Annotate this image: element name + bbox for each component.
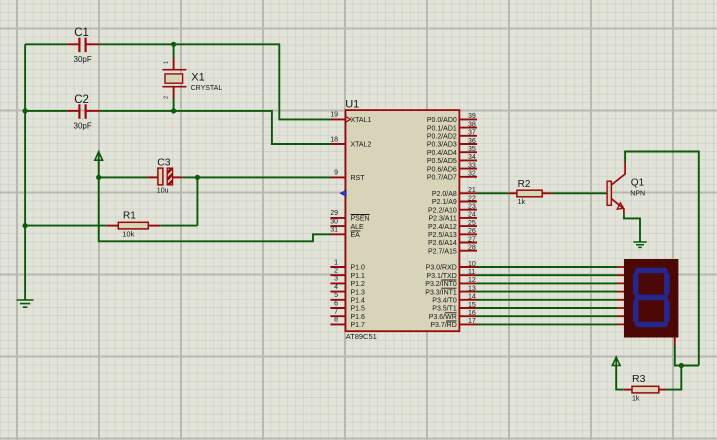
svg-text:31: 31 [330,227,338,234]
junction node RST right [195,175,200,180]
svg-text:P0.2/AD2: P0.2/AD2 [427,134,457,141]
svg-text:R2: R2 [518,179,531,190]
svg-text:P2.3/A11: P2.3/A11 [429,216,457,223]
svg-text:15: 15 [468,302,476,309]
svg-text:P2.6/A14: P2.6/A14 [428,240,457,247]
wire junction down to R3 [666,366,682,390]
svg-text:30pF: 30pF [74,122,92,131]
wire Q1 collector to right rail [625,152,699,366]
power +V symbol (R3) [612,357,620,365]
svg-text:P0.4/AD4: P0.4/AD4 [427,150,457,157]
svg-text:P3.1/TXD: P3.1/TXD [426,273,456,280]
svg-text:9: 9 [334,170,338,177]
svg-text:P2.5/A13: P2.5/A13 [428,232,457,239]
wire R1 to RST branch [160,225,197,227]
svg-text:28: 28 [468,245,476,252]
svg-text:1k: 1k [632,396,640,403]
resistor R1 10k [25,225,106,227]
junction node RST left [96,175,101,180]
svg-text:27: 27 [468,236,476,243]
svg-text:24: 24 [468,212,476,219]
svg-text:P1.3: P1.3 [351,289,366,296]
wire C1 left to rail [25,43,68,45]
wire crystal bottom pin [173,98,175,111]
svg-text:P3.0/RXD: P3.0/RXD [426,265,457,272]
wire display common to rail [675,346,699,366]
svg-text:P0.6/AD6: P0.6/AD6 [427,166,457,173]
svg-text:8: 8 [334,317,338,324]
svg-text:Q1: Q1 [631,178,645,189]
svg-text:35: 35 [468,146,476,153]
svg-text:P3.4/T0: P3.4/T0 [432,298,457,305]
wire Q1 emitter to ground [624,215,640,242]
wire RST node down to R1 [196,177,198,225]
svg-text:X1: X1 [191,72,204,84]
svg-text:P3.5/T1: P3.5/T1 [432,306,457,313]
svg-text:32: 32 [468,171,476,178]
svg-text:10: 10 [468,261,476,268]
svg-text:P3.2/INT0: P3.2/INT0 [425,281,457,288]
svg-text:37: 37 [468,130,476,137]
blue node marker [341,190,347,196]
svg-text:P1.5: P1.5 [351,306,366,313]
svg-text:P1.6: P1.6 [351,314,366,321]
svg-text:P2.1/A9: P2.1/A9 [432,199,457,206]
junction node common [679,363,684,368]
svg-text:23: 23 [468,204,476,211]
svg-text:10u: 10u [157,188,169,195]
svg-text:P3.3/INT1: P3.3/INT1 [425,289,457,296]
svg-text:P2.2/A10: P2.2/A10 [428,207,457,214]
svg-text:P1.7: P1.7 [351,322,366,329]
svg-text:PSEN: PSEN [351,216,370,223]
svg-text:16: 16 [468,310,476,317]
svg-text:P2.4/A12: P2.4/A12 [428,224,457,231]
U1 overlines (active-low pins) [351,215,457,322]
display common pin [674,338,676,346]
capacitor C2 30pF [68,110,79,112]
svg-text:RST: RST [351,175,366,182]
svg-text:18: 18 [330,136,338,143]
svg-text:P1.0: P1.0 [351,265,366,272]
svg-text:P2.7/A15: P2.7/A15 [428,248,457,255]
wire C2 left to rail [25,110,68,112]
svg-text:7: 7 [334,309,338,316]
svg-text:EA: EA [351,232,361,239]
capacitor C1 30pF [68,43,79,45]
svg-text:P0.5/AD5: P0.5/AD5 [427,158,457,165]
wire U1 P2.0 to R2 [477,192,509,194]
wire +V to U1 EA pin [99,177,331,241]
svg-text:C1: C1 [74,27,89,39]
svg-text:P2.0/A8: P2.0/A8 [432,191,457,198]
svg-text:38: 38 [468,121,476,128]
svg-text:25: 25 [468,220,476,227]
wire R2 to Q1 base [551,192,607,194]
svg-text:5: 5 [334,292,338,299]
transistor Q1 NPN [607,181,611,205]
svg-text:2: 2 [164,96,170,99]
svg-text:ALE: ALE [351,224,365,231]
resistor R3 1k [659,389,666,391]
svg-text:XTAL1: XTAL1 [351,117,372,124]
wire R3 to power [616,365,624,390]
svg-text:2: 2 [334,268,338,275]
7-segment display [617,267,624,324]
svg-text:P1.2: P1.2 [351,281,366,288]
svg-text:AT89C51: AT89C51 [346,332,377,341]
svg-text:17: 17 [468,318,476,325]
svg-text:19: 19 [330,112,338,119]
svg-text:13: 13 [468,285,476,292]
svg-text:29: 29 [330,210,338,217]
svg-text:NPN: NPN [630,190,645,197]
svg-text:22: 22 [468,195,476,202]
svg-text:3: 3 [334,276,338,283]
resistor R2 1k [509,192,517,194]
capacitor C3 10u [99,176,148,178]
junction node crystal top [171,42,176,47]
svg-text:21: 21 [468,187,476,194]
svg-text:30: 30 [330,218,338,225]
svg-text:12: 12 [468,277,476,284]
junction node crystal bottom [171,108,176,113]
svg-text:P3.6/WR: P3.6/WR [429,314,457,321]
svg-text:26: 26 [468,228,476,235]
IC U1 AT89C51 body [346,110,460,331]
svg-text:P0.0/AD0: P0.0/AD0 [427,117,457,124]
wire left rail [24,44,26,299]
svg-text:R3: R3 [632,373,646,385]
wire C3 to U1 RST pin [182,176,331,178]
wire power to RST node [98,158,100,177]
svg-text:33: 33 [468,162,476,169]
svg-text:P0.3/AD3: P0.3/AD3 [427,142,457,149]
svg-text:R1: R1 [123,211,136,222]
svg-text:P1.1: P1.1 [351,273,366,280]
svg-text:39: 39 [468,113,476,120]
svg-text:P0.7/AD7: P0.7/AD7 [427,175,457,182]
svg-text:C3: C3 [157,156,171,168]
svg-text:1: 1 [164,61,170,64]
svg-text:14: 14 [468,294,476,301]
U1 left pin stubs [330,119,345,324]
svg-text:30pF: 30pF [74,55,92,64]
svg-text:34: 34 [468,154,476,161]
svg-text:U1: U1 [345,99,359,111]
svg-text:P3.7/RD: P3.7/RD [430,322,456,329]
svg-text:XTAL2: XTAL2 [351,142,372,149]
U1 clock pin marker (pin 19) [346,116,351,122]
junction node rail C2 [23,108,28,113]
svg-text:6: 6 [334,300,338,307]
svg-text:1: 1 [334,259,338,266]
crystal X1 [173,58,175,70]
svg-text:P0.1/AD1: P0.1/AD1 [427,125,457,132]
wire crystal top pin [173,44,175,57]
power +V symbol (RST) [95,152,103,160]
svg-text:4: 4 [334,284,338,291]
svg-text:P1.4: P1.4 [351,298,366,305]
svg-text:10k: 10k [122,230,134,239]
ground (Q1 emitter) [633,242,646,247]
svg-text:C2: C2 [74,94,89,106]
svg-text:36: 36 [468,138,476,145]
svg-text:1k: 1k [518,199,526,206]
U1 right pin stubs [459,119,477,324]
ground (left rail) [17,300,34,307]
wire C1 right to U1 XTAL1 [100,44,331,119]
svg-text:11: 11 [468,269,475,276]
wires U1 P3.0-P3.7 to display [477,267,617,324]
svg-text:CRYSTAL: CRYSTAL [191,85,223,92]
wire C2 right to U1 XTAL2 [100,111,331,144]
